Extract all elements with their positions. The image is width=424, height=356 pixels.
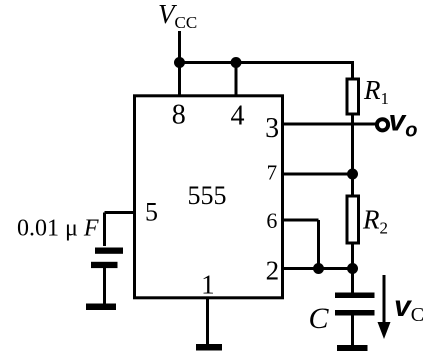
wire pin 3 output <box>283 123 376 126</box>
resistor R1 <box>347 79 359 114</box>
arrow vc head <box>378 322 391 339</box>
wire Vcc vertical to pin 8 <box>178 31 181 96</box>
junction dot pin2/R2/C <box>347 263 358 274</box>
bypass capacitor top plate <box>95 248 123 254</box>
wire R1 bottom to pin7 node <box>351 114 354 196</box>
ground bar below capacitor C <box>337 345 368 351</box>
ground bar pin 1 <box>196 344 222 351</box>
wire pin 6 vertical down to pin 2 net <box>317 220 320 269</box>
wire top bus Vcc to R1 <box>180 61 355 64</box>
wire pin 4 vertical <box>235 63 238 96</box>
svg-text:8: 8 <box>172 100 186 131</box>
svg-text:0.01 μ F: 0.01 μ F <box>17 216 99 242</box>
output terminal circle <box>377 119 388 130</box>
svg-text:1: 1 <box>201 269 215 299</box>
wire R2 bottom through node to capacitor C <box>351 243 354 293</box>
wire pin 1 down <box>206 298 209 344</box>
svg-text:3: 3 <box>265 113 279 144</box>
wire below capacitor C <box>351 316 354 346</box>
svg-text:4: 4 <box>231 101 245 132</box>
svg-text:C: C <box>309 302 330 335</box>
svg-text:2: 2 <box>266 255 280 285</box>
svg-text:5: 5 <box>145 197 158 226</box>
bypass capacitor bottom plate <box>91 262 118 268</box>
junction dot pin7 node <box>347 169 358 180</box>
arrow vc line <box>383 275 386 327</box>
resistor R2 <box>347 196 359 243</box>
junction dot at Vcc bus pin8 <box>174 57 185 68</box>
555 timer U1 body <box>135 96 283 298</box>
svg-text:7: 7 <box>267 160 278 184</box>
wire pin 5 vertical down to bypass cap <box>103 213 106 247</box>
wire pin 7 to R node <box>283 173 353 176</box>
wire pin 6 horizontal <box>283 219 319 222</box>
svg-text:6: 6 <box>266 208 277 233</box>
svg-text:555: 555 <box>188 181 227 210</box>
junction dot pin6/pin2 <box>313 263 324 274</box>
wire pin 5 horizontal <box>105 211 135 214</box>
capacitor C top plate <box>335 293 375 299</box>
junction dot at Vcc bus pin4 <box>231 57 242 68</box>
wire below bypass cap <box>103 268 106 304</box>
capacitor C bottom plate <box>335 310 375 316</box>
wire bus down to R1 top <box>351 63 354 80</box>
wire pin 2 horizontal <box>283 267 353 270</box>
ground bar below bypass cap <box>86 304 116 311</box>
